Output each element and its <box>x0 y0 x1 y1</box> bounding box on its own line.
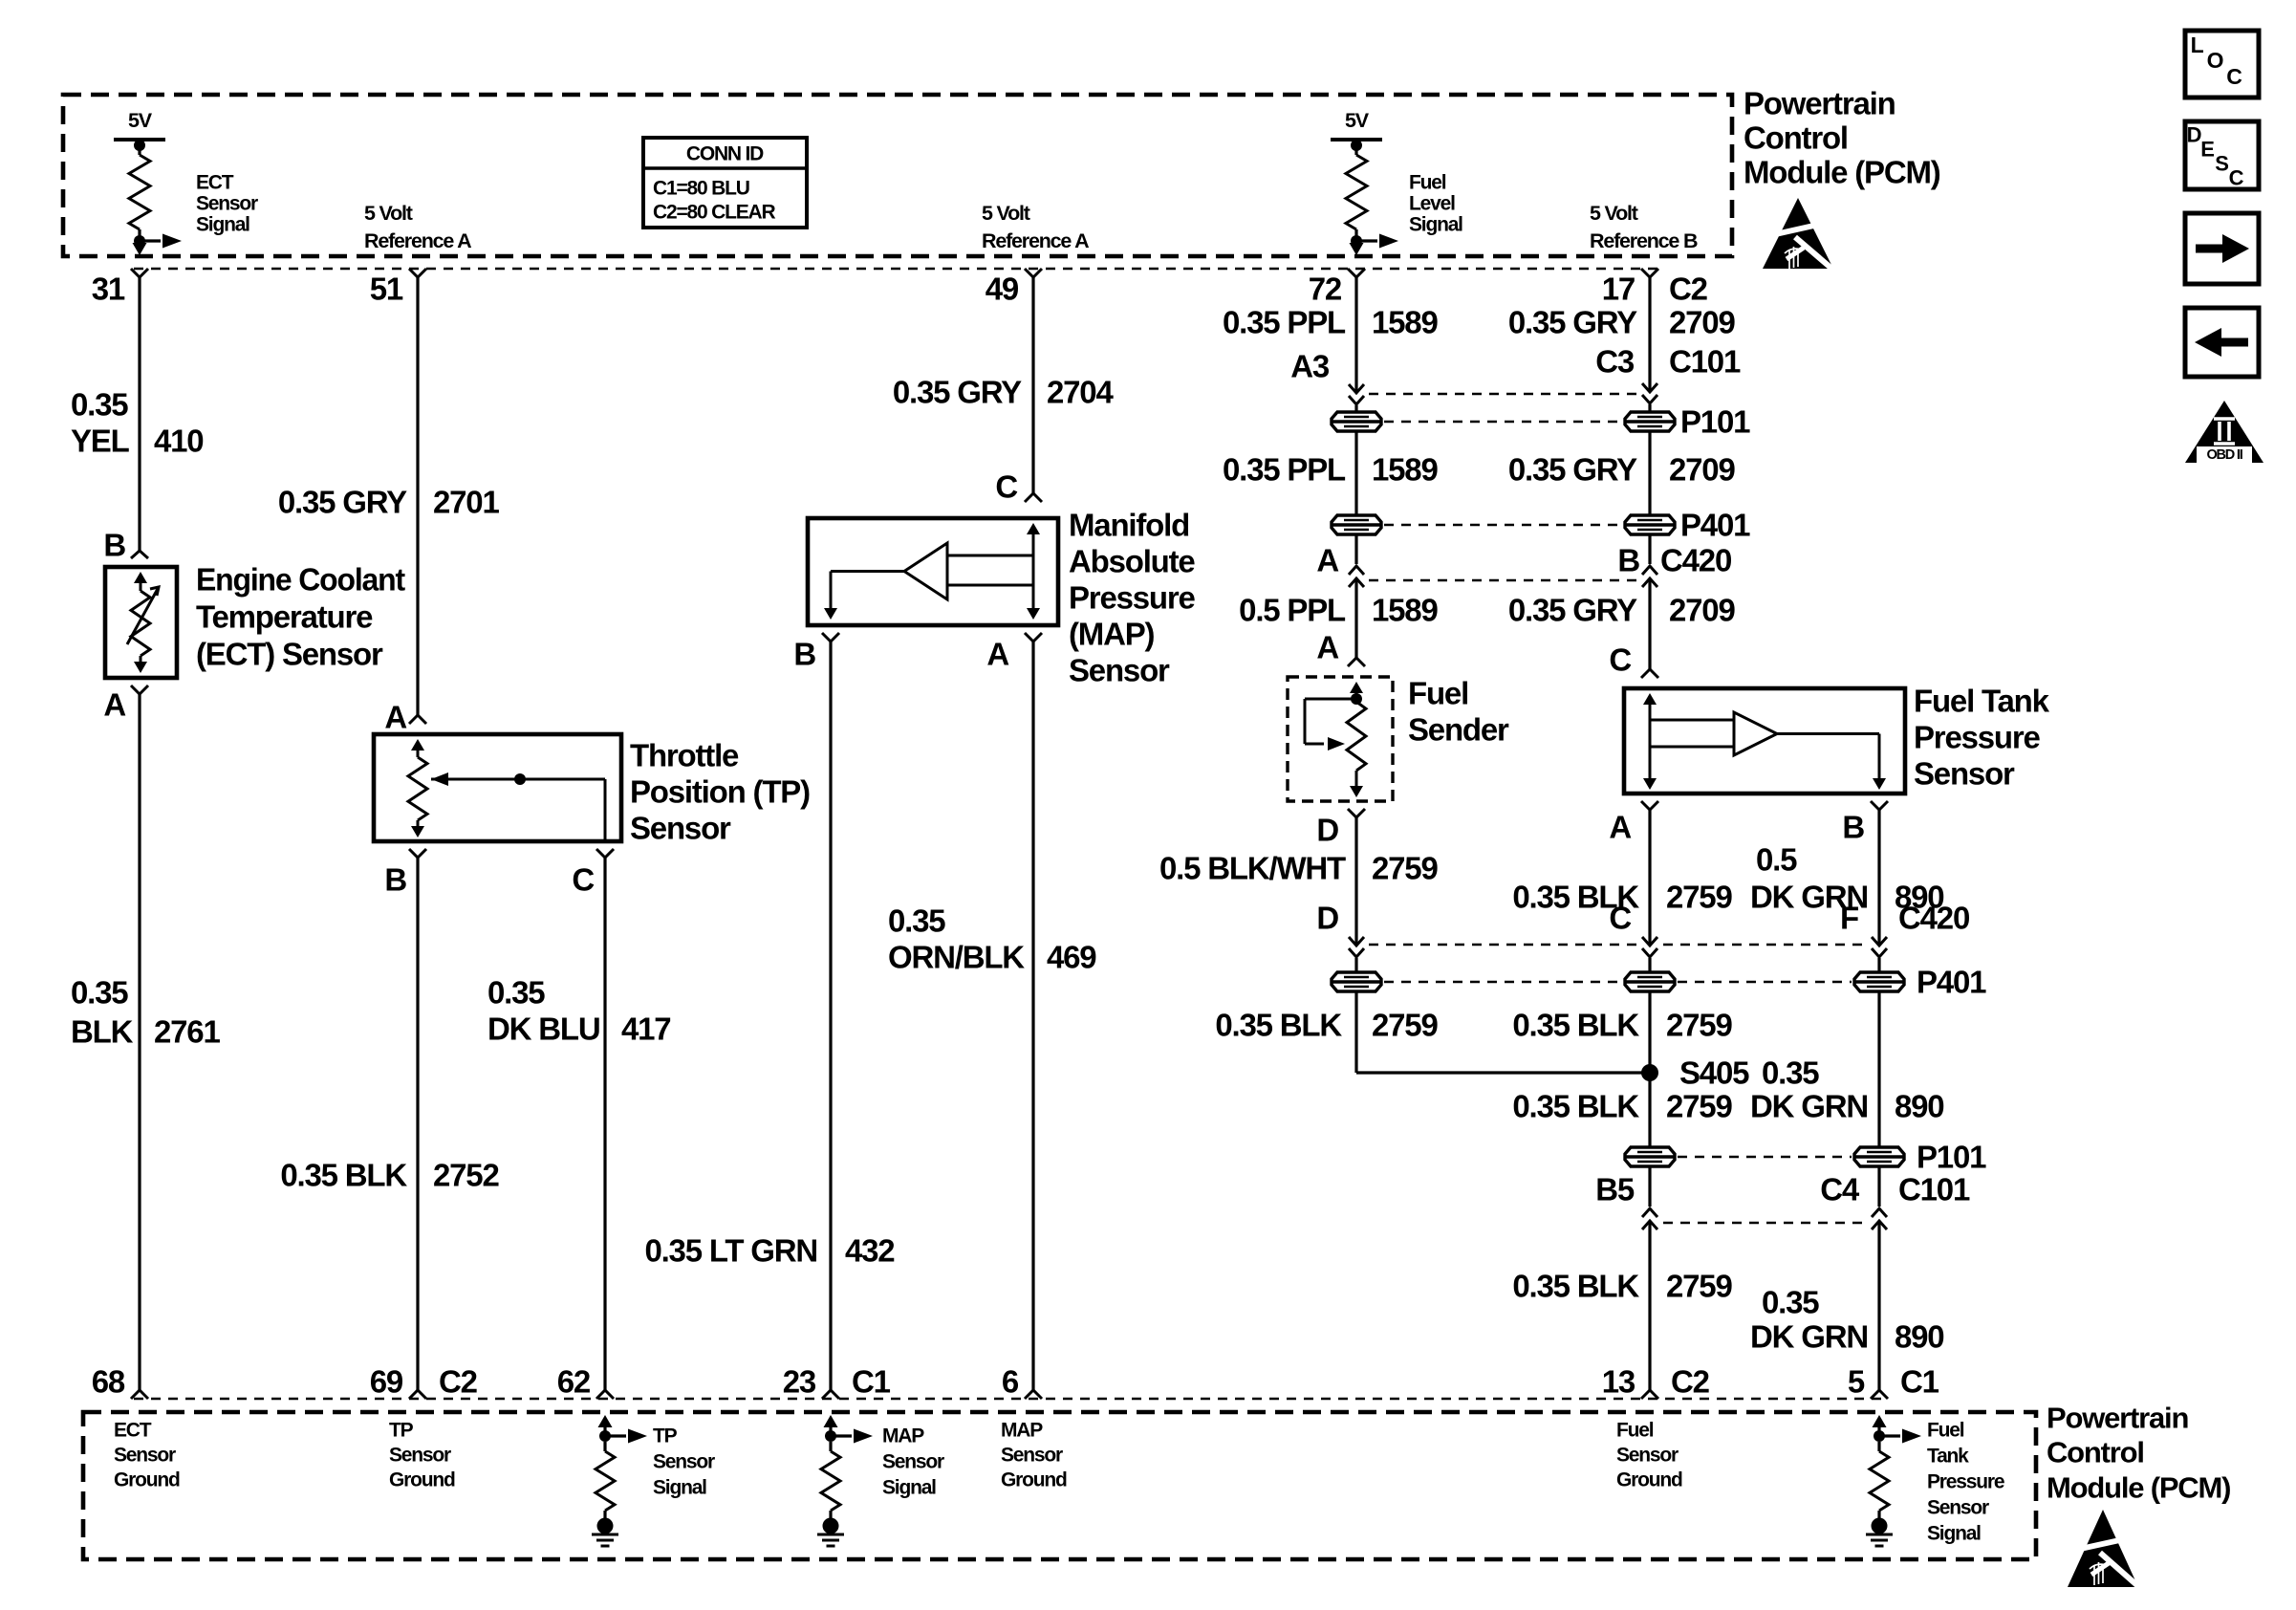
inline connector C420 F <box>1872 937 1887 957</box>
svg-text:62: 62 <box>557 1364 591 1400</box>
wire 2704 GRY <box>1031 277 1034 493</box>
svg-text:2704: 2704 <box>1047 375 1114 410</box>
wire 2759 BLK seg3 <box>1648 1223 1651 1390</box>
svg-text:410: 410 <box>154 424 203 459</box>
svg-text:C1: C1 <box>1900 1364 1939 1400</box>
TP Sensor Ground label <box>389 1420 455 1491</box>
terminal B FTP sensor <box>1871 801 1888 810</box>
MAP sensor name <box>1069 508 1196 688</box>
wire 1589 PPL seg3 <box>1354 580 1357 658</box>
svg-text:Fuel: Fuel <box>1927 1420 1964 1442</box>
TP Sensor Signal label <box>653 1425 715 1499</box>
wire 2752 BLK <box>416 858 419 1390</box>
svg-text:ECT: ECT <box>114 1420 152 1442</box>
FTP internal amplifier <box>1643 693 1886 790</box>
svg-text:68: 68 <box>92 1364 125 1400</box>
svg-text:Fuel: Fuel <box>1409 172 1446 194</box>
svg-text:2759: 2759 <box>1372 851 1438 886</box>
wire 417 DK BLU <box>603 858 606 1390</box>
terminal A ECT sensor <box>131 685 148 694</box>
svg-text:13: 13 <box>1602 1364 1635 1400</box>
svg-text:Sender: Sender <box>1408 712 1509 748</box>
svg-text:0.35 GRY: 0.35 GRY <box>1508 452 1637 488</box>
label 0.35 DK GRN 2 <box>1750 1055 1868 1124</box>
svg-text:OBD II: OBD II <box>2206 447 2242 463</box>
ECT Sensor Signal label <box>196 172 258 236</box>
svg-text:Sensor: Sensor <box>114 1445 176 1467</box>
svg-text:432: 432 <box>845 1233 895 1269</box>
svg-text:2759: 2759 <box>1666 1269 1732 1304</box>
wire seg <box>1648 404 1651 412</box>
svg-text:890: 890 <box>1895 1319 1943 1355</box>
svg-text:Sensor: Sensor <box>1616 1445 1679 1467</box>
terminal pin 69 TP gnd <box>409 1390 426 1399</box>
label 0.35 YEL <box>71 387 130 459</box>
svg-text:0.35 GRY: 0.35 GRY <box>278 485 407 520</box>
terminal pin 6 MAP gnd <box>1025 1390 1042 1399</box>
svg-text:B: B <box>793 637 815 672</box>
svg-text:C420: C420 <box>1898 901 1969 936</box>
wire 2759 BLK seg2 <box>1648 992 1651 1146</box>
svg-text:2759: 2759 <box>1372 1008 1438 1043</box>
svg-text:C4: C4 <box>1820 1172 1860 1207</box>
svg-text:C: C <box>1609 642 1631 678</box>
left arrow icon box <box>2185 308 2259 377</box>
svg-text:Engine Coolant: Engine Coolant <box>196 562 405 598</box>
svg-text:Pressure: Pressure <box>1927 1471 2004 1493</box>
svg-text:Pressure: Pressure <box>1069 580 1196 616</box>
svg-text:Module (PCM): Module (PCM) <box>1744 155 1940 190</box>
label 0.35 BLK <box>71 975 134 1050</box>
ECT sensor box <box>105 567 177 678</box>
svg-text:Module (PCM): Module (PCM) <box>2047 1471 2230 1505</box>
svg-text:F: F <box>1840 901 1858 936</box>
LOC icon box <box>2185 31 2259 98</box>
wire 2709 GRY seg1 <box>1648 277 1651 390</box>
wire 890 DK GRN seg3 <box>1877 1223 1880 1390</box>
svg-text:Fuel: Fuel <box>1408 676 1468 711</box>
dashed link C420 <box>1369 579 1637 582</box>
Fuel tank pressure sensor signal pull-up <box>1870 1415 1921 1518</box>
dashed link P401 <box>1384 524 1622 527</box>
svg-text:2709: 2709 <box>1669 593 1735 628</box>
ESD symbol top (PCM) <box>1763 198 1835 272</box>
dashed link C420 row D-C-F <box>1369 944 1637 946</box>
ground TP <box>592 1518 618 1547</box>
5V supply Fuel Level <box>1331 109 1382 247</box>
svg-text:Sensor: Sensor <box>653 1451 715 1473</box>
wire seg <box>1877 1167 1880 1207</box>
svg-text:Ground: Ground <box>1616 1469 1682 1491</box>
svg-text:ECT: ECT <box>196 172 234 194</box>
svg-text:Throttle: Throttle <box>630 738 739 773</box>
MAP internal amplifier <box>824 523 1040 620</box>
grommet P401 bottom mid <box>1625 972 1675 991</box>
svg-text:Control: Control <box>1744 120 1848 156</box>
svg-text:Reference B: Reference B <box>1590 229 1698 252</box>
fuel sender dashed box <box>1288 677 1393 801</box>
svg-text:0.35: 0.35 <box>1762 1055 1819 1091</box>
svg-text:C: C <box>1609 901 1631 936</box>
svg-text:5V: 5V <box>1345 109 1370 132</box>
ECT sensor name <box>196 562 405 672</box>
svg-text:Fuel Tank: Fuel Tank <box>1914 684 2050 719</box>
svg-text:0.35 BLK: 0.35 BLK <box>1215 1008 1342 1043</box>
svg-text:0.35 BLK: 0.35 BLK <box>280 1158 407 1193</box>
terminal B TP sensor <box>409 849 426 858</box>
svg-text:C1: C1 <box>852 1364 891 1400</box>
terminal pin 51 5V ref A <box>409 269 426 277</box>
svg-text:0.5: 0.5 <box>1756 842 1797 878</box>
svg-text:C: C <box>572 862 594 898</box>
svg-text:Control: Control <box>2047 1436 2144 1469</box>
svg-text:A: A <box>1316 630 1338 665</box>
FTP Sensor Signal label <box>1927 1420 2004 1545</box>
svg-text:A: A <box>1609 810 1631 845</box>
svg-text:417: 417 <box>621 1012 670 1047</box>
wire 2759 seg <box>1354 992 1357 1073</box>
terminal A MAP sensor <box>1025 633 1042 642</box>
svg-text:17: 17 <box>1602 272 1635 307</box>
svg-text:Signal: Signal <box>1927 1523 1981 1545</box>
TP potentiometer <box>408 739 427 838</box>
svg-text:49: 49 <box>986 272 1019 307</box>
svg-text:Temperature: Temperature <box>196 599 373 635</box>
svg-text:Sensor: Sensor <box>882 1451 944 1473</box>
svg-text:B: B <box>103 528 125 563</box>
svg-text:C: C <box>995 469 1017 505</box>
svg-text:S405: S405 <box>1679 1055 1749 1091</box>
svg-text:DK GRN: DK GRN <box>1750 1319 1868 1355</box>
svg-text:P101: P101 <box>1917 1140 1986 1175</box>
TP sensor signal pull-up <box>596 1415 647 1518</box>
svg-text:0.35 GRY: 0.35 GRY <box>1508 305 1637 340</box>
grommet P101 left <box>1332 412 1381 431</box>
svg-text:B: B <box>384 862 406 898</box>
svg-text:2752: 2752 <box>433 1158 499 1193</box>
label 0.5 DK GRN <box>1750 842 1868 915</box>
svg-text:C2: C2 <box>439 1364 478 1400</box>
svg-text:1589: 1589 <box>1372 305 1438 340</box>
fuel level signal arrow <box>1350 234 1399 256</box>
Fuel Sensor Ground label <box>1616 1420 1682 1491</box>
svg-text:Reference A: Reference A <box>982 229 1089 252</box>
wire 469 ORN/BLK <box>1031 642 1034 1390</box>
svg-text:51: 51 <box>370 272 403 307</box>
svg-text:Signal: Signal <box>196 214 249 236</box>
TP sensor box <box>374 734 621 841</box>
wire 2701 GRY <box>416 277 419 715</box>
svg-text:5: 5 <box>1848 1364 1865 1400</box>
TP wiper <box>431 772 605 841</box>
svg-text:72: 72 <box>1309 272 1342 307</box>
svg-text:P101: P101 <box>1680 404 1750 440</box>
svg-text:6: 6 <box>1002 1364 1019 1400</box>
svg-text:2759: 2759 <box>1666 880 1732 915</box>
svg-text:0.5 PPL: 0.5 PPL <box>1239 593 1346 628</box>
wire 1589 PPL seg2 <box>1354 432 1357 564</box>
PCM bottom dashed box <box>83 1412 2036 1559</box>
svg-text:DK BLU: DK BLU <box>487 1012 599 1047</box>
terminal pin 13 fuel gnd <box>1641 1390 1658 1399</box>
terminal B MAP sensor <box>822 633 839 642</box>
fuel sender name <box>1408 676 1509 748</box>
svg-text:2759: 2759 <box>1666 1089 1732 1124</box>
svg-text:Tank: Tank <box>1927 1446 1969 1468</box>
svg-text:Powertrain: Powertrain <box>2047 1402 2188 1435</box>
grommet P101 right <box>1625 412 1675 431</box>
svg-text:0.35: 0.35 <box>487 975 545 1011</box>
svg-text:B: B <box>1842 810 1864 845</box>
svg-text:2759: 2759 <box>1666 1008 1732 1043</box>
svg-text:Fuel: Fuel <box>1616 1420 1654 1442</box>
svg-text:CONN ID: CONN ID <box>686 143 764 165</box>
svg-text:Powertrain: Powertrain <box>1744 86 1895 121</box>
wire seg <box>1354 405 1357 412</box>
PCM top connector face dashed line <box>134 268 1658 271</box>
Fuel Level Signal label <box>1409 172 1462 236</box>
svg-text:C420: C420 <box>1660 543 1731 578</box>
splice S405 <box>1641 1064 1658 1081</box>
wire 410 YEL upper <box>138 277 141 551</box>
svg-text:S: S <box>2215 152 2228 176</box>
terminal pin 5 FTP signal <box>1871 1390 1888 1399</box>
5V supply ECT <box>114 109 165 247</box>
wire 2709 GRY seg2 <box>1648 432 1651 564</box>
svg-text:Ground: Ground <box>114 1469 180 1491</box>
wire 2709 GRY seg3 <box>1648 580 1651 669</box>
inline connector C420 D <box>1349 937 1364 957</box>
svg-text:Ground: Ground <box>1001 1469 1067 1491</box>
svg-text:TP: TP <box>389 1420 414 1442</box>
svg-text:Sensor: Sensor <box>1914 756 2015 792</box>
svg-text:C2=80 CLEAR: C2=80 CLEAR <box>653 202 775 224</box>
svg-text:5 Volt: 5 Volt <box>982 202 1030 225</box>
terminal B ECT sensor <box>131 551 148 558</box>
svg-text:1589: 1589 <box>1372 593 1438 628</box>
svg-text:TP: TP <box>653 1425 678 1447</box>
svg-text:69: 69 <box>370 1364 403 1400</box>
grommet P401 bottom right <box>1854 972 1904 991</box>
svg-text:2709: 2709 <box>1669 452 1735 488</box>
ground FTP <box>1866 1518 1893 1547</box>
svg-text:B: B <box>1617 543 1639 578</box>
grommet P101 bottom mid <box>1625 1147 1675 1166</box>
dashed link P101 row <box>1678 1156 1852 1159</box>
svg-text:(MAP): (MAP) <box>1069 617 1155 652</box>
terminal pin 49 5V ref A <box>1025 269 1042 277</box>
svg-text:Pressure: Pressure <box>1914 720 2041 755</box>
wire seg <box>1648 1167 1651 1207</box>
wire 890 DK GRN seg2 <box>1877 992 1880 1146</box>
svg-text:Manifold: Manifold <box>1069 508 1189 543</box>
inline connector C420 C <box>1642 937 1657 957</box>
svg-text:C101: C101 <box>1898 1172 1970 1207</box>
svg-text:MAP: MAP <box>1001 1420 1043 1442</box>
FTP sensor name <box>1914 684 2050 792</box>
ECT Sensor Ground label <box>114 1420 180 1491</box>
svg-text:D: D <box>2187 123 2201 147</box>
svg-text:0.35: 0.35 <box>71 975 128 1011</box>
terminal pin 31 ECT signal <box>131 269 148 277</box>
svg-text:0.35: 0.35 <box>888 903 945 939</box>
fuel tank pressure sensor box <box>1624 688 1905 794</box>
label 0.35 ORN/BLK <box>888 903 1025 975</box>
dashed link C101 <box>1369 393 1637 396</box>
svg-text:A: A <box>1316 543 1338 578</box>
svg-text:(ECT) Sensor: (ECT) Sensor <box>196 637 383 672</box>
wire 890 DK GRN seg1 <box>1877 810 1880 944</box>
inline connector C420 A <box>1349 566 1364 587</box>
svg-text:A: A <box>384 700 406 735</box>
svg-text:D: D <box>1316 813 1338 848</box>
MAP Sensor Signal label <box>882 1425 944 1499</box>
5 Volt Reference A label 1 <box>364 202 471 252</box>
svg-text:Sensor: Sensor <box>196 193 258 215</box>
terminal D fuel sender <box>1348 809 1365 817</box>
svg-text:Absolute: Absolute <box>1069 544 1195 579</box>
svg-text:L: L <box>2191 33 2204 57</box>
MAP sensor signal pull-up <box>821 1415 873 1518</box>
dashed link C101 row B5-C4 <box>1663 1222 1867 1225</box>
label 0.35 DK BLU <box>487 975 599 1047</box>
svg-text:Signal: Signal <box>882 1477 936 1499</box>
svg-text:Sensor: Sensor <box>1927 1497 1989 1519</box>
terminal pin 17 C2 5V ref B <box>1641 269 1658 277</box>
5 Volt Reference A label 2 <box>982 202 1089 252</box>
terminal A fuel sender <box>1348 658 1365 666</box>
PCM top dashed box <box>63 95 1732 256</box>
wire 2759 BLK seg <box>1648 810 1651 944</box>
svg-text:C2: C2 <box>1671 1364 1710 1400</box>
svg-text:5 Volt: 5 Volt <box>364 202 413 225</box>
svg-text:ORN/BLK: ORN/BLK <box>888 940 1025 975</box>
wire to splice S405 <box>1356 1071 1650 1074</box>
terminal pin 68 ECT gnd <box>131 1390 148 1399</box>
wire 2761 BLK <box>138 694 141 1390</box>
wire seg <box>1877 958 1880 971</box>
svg-text:MAP: MAP <box>882 1425 924 1447</box>
inline connector C420 B <box>1642 566 1657 587</box>
svg-text:1589: 1589 <box>1372 452 1438 488</box>
5 Volt Reference B label <box>1590 202 1698 252</box>
svg-text:C: C <box>2229 166 2244 190</box>
svg-text:E: E <box>2200 138 2214 162</box>
wire seg <box>1354 958 1357 971</box>
terminal A FTP sensor <box>1641 801 1658 810</box>
svg-text:0.35 GRY: 0.35 GRY <box>1508 593 1637 628</box>
MAP sensor box <box>808 518 1058 625</box>
svg-text:31: 31 <box>92 272 125 307</box>
svg-text:Signal: Signal <box>653 1477 706 1499</box>
terminal pin 62 TP signal <box>596 1390 614 1399</box>
svg-text:B5: B5 <box>1595 1172 1635 1207</box>
svg-text:23: 23 <box>783 1364 816 1400</box>
terminal A TP sensor <box>409 715 426 724</box>
terminal pin 72 fuel level <box>1348 269 1365 277</box>
wire 2759 BLK/WHT <box>1354 817 1357 944</box>
terminal C FTP sensor <box>1641 669 1658 678</box>
svg-text:5V: 5V <box>128 109 153 132</box>
svg-text:C101: C101 <box>1669 344 1741 380</box>
svg-text:O: O <box>2207 48 2223 73</box>
svg-text:0.35 BLK: 0.35 BLK <box>1512 1089 1639 1124</box>
svg-text:C2: C2 <box>1669 272 1708 307</box>
svg-text:Level: Level <box>1409 193 1455 215</box>
wire 1589 PPL seg1 <box>1354 277 1357 391</box>
svg-text:0.35 GRY: 0.35 GRY <box>893 375 1022 410</box>
ESD symbol bottom (PCM) <box>2068 1510 2140 1588</box>
svg-text:469: 469 <box>1047 940 1096 975</box>
svg-text:C3: C3 <box>1595 344 1635 380</box>
svg-text:Signal: Signal <box>1409 214 1462 236</box>
svg-text:Sensor: Sensor <box>1069 653 1170 688</box>
svg-text:A3: A3 <box>1290 349 1330 384</box>
right arrow icon box <box>2185 213 2259 284</box>
svg-text:2761: 2761 <box>154 1014 220 1050</box>
ground MAP <box>817 1518 844 1547</box>
svg-text:2701: 2701 <box>433 485 499 520</box>
label 0.35 DK GRN 3 <box>1750 1285 1868 1355</box>
svg-text:0.35: 0.35 <box>71 387 128 423</box>
inline connector C101 B5 <box>1642 1208 1657 1229</box>
grommet P101 bottom right <box>1854 1147 1904 1166</box>
inline connector C101 A3 <box>1349 384 1364 404</box>
svg-text:2709: 2709 <box>1669 305 1735 340</box>
wire 432 LT GRN <box>829 642 832 1390</box>
MAP Sensor Ground label <box>1001 1420 1067 1491</box>
svg-text:C: C <box>2226 64 2242 89</box>
svg-text:P401: P401 <box>1917 965 1986 1000</box>
svg-text:5 Volt: 5 Volt <box>1590 202 1638 225</box>
grommet P401 bottom left <box>1332 972 1381 991</box>
terminal C TP sensor <box>596 849 614 858</box>
svg-text:Position (TP): Position (TP) <box>630 774 810 810</box>
PCM bottom label <box>2047 1402 2230 1505</box>
svg-text:0.5 BLK/WHT: 0.5 BLK/WHT <box>1159 851 1346 886</box>
fuel sender rheostat <box>1305 682 1366 797</box>
inline connector C101 C4 <box>1872 1208 1887 1229</box>
svg-text:0.35: 0.35 <box>1762 1285 1819 1320</box>
TP sensor name <box>630 738 810 846</box>
OBD II triangle icon <box>2185 401 2264 463</box>
DESC icon box <box>2185 121 2259 190</box>
svg-text:Sensor: Sensor <box>389 1445 451 1467</box>
terminal pin 23 MAP signal <box>822 1390 839 1399</box>
svg-text:0.35 BLK: 0.35 BLK <box>1512 1008 1639 1043</box>
svg-text:A: A <box>986 637 1008 672</box>
svg-text:0.35 PPL: 0.35 PPL <box>1223 452 1346 488</box>
svg-text:D: D <box>1316 901 1338 936</box>
svg-text:Ground: Ground <box>389 1469 455 1491</box>
svg-text:Reference A: Reference A <box>364 229 471 252</box>
svg-text:P401: P401 <box>1680 508 1750 543</box>
svg-text:0.35 LT GRN: 0.35 LT GRN <box>644 1233 817 1269</box>
terminal C MAP sensor <box>1025 493 1042 502</box>
dashed link P401 row <box>1384 981 1622 984</box>
wire seg <box>1648 958 1651 971</box>
svg-text:DK GRN: DK GRN <box>1750 1089 1868 1124</box>
svg-text:YEL: YEL <box>71 424 130 459</box>
PCM top label <box>1744 86 1940 190</box>
svg-text:0.35 BLK: 0.35 BLK <box>1512 1269 1639 1304</box>
svg-text:BLK: BLK <box>71 1014 134 1050</box>
grommet P401 left <box>1332 515 1381 534</box>
grommet P401 right <box>1625 515 1675 534</box>
inline connector C101 C3 <box>1642 383 1657 403</box>
svg-text:Sensor: Sensor <box>630 811 731 846</box>
svg-text:C1=80 BLU: C1=80 BLU <box>653 178 749 200</box>
